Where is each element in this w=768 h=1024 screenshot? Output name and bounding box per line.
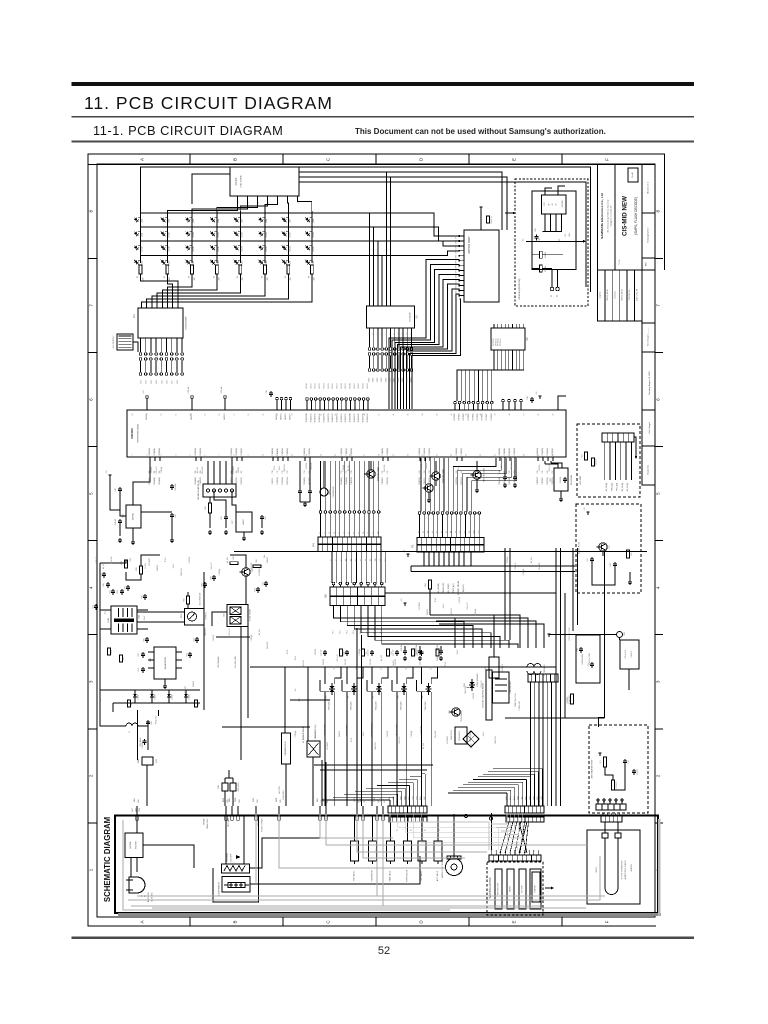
svg-text:P23(RXD): P23(RXD) <box>287 477 289 485</box>
svg-text:5: 5 <box>656 492 661 495</box>
svg-text:LED1: LED1 <box>142 219 144 223</box>
junction circle motor feed <box>490 817 493 820</box>
connector P1 header <box>418 512 421 515</box>
MICOM top pin riser bus-2 <box>310 401 312 411</box>
svg-text:56: 56 <box>248 414 250 416</box>
svg-text:0.1uF: 0.1uF <box>363 732 365 736</box>
capacitor C42 <box>171 513 173 515</box>
wire CN-P1 right to option area 1 <box>299 172 502 230</box>
svg-text:2: 2 <box>248 203 250 204</box>
heater assembly box <box>587 830 640 904</box>
svg-text:ASSY-HEATER TEMP: ASSY-HEATER TEMP <box>591 759 594 779</box>
noise filter box <box>125 833 143 858</box>
svg-text:3: 3 <box>161 454 163 455</box>
svg-text:P14: P14 <box>304 470 306 473</box>
triac bottom bus b <box>320 769 427 771</box>
IC IC7 regulator <box>236 512 252 532</box>
svg-text:T1A/BLK/BLK: T1A/BLK/BLK <box>206 818 209 829</box>
wire relay drops <box>321 760 323 806</box>
K5 top pin 7 <box>515 324 517 328</box>
terminal comb group B row2 <box>506 817 544 822</box>
svg-text:R1: R1 <box>137 276 139 278</box>
svg-text:TP-05: TP-05 <box>105 610 107 615</box>
reset wires <box>120 493 126 516</box>
approval table <box>598 270 643 321</box>
svg-text:BL: BL <box>439 829 441 831</box>
wire P4 pin 6 to K6 <box>356 552 358 584</box>
svg-text:KRC102M: KRC102M <box>421 462 423 470</box>
svg-text:R00: R00 <box>326 696 328 699</box>
varistor ZN06 <box>142 757 153 765</box>
svg-text:GRID11: GRID11 <box>411 377 413 382</box>
svg-text:P30: P30 <box>499 470 501 473</box>
svg-text:F: F <box>605 158 610 161</box>
svg-text:PWM_A(C): PWM_A(C) <box>452 583 455 593</box>
svg-text:C36: C36 <box>265 516 267 519</box>
svg-text:47: 47 <box>379 414 381 416</box>
K5 top pin 1 <box>493 324 495 328</box>
resistor R8 330 LED column 8 <box>310 265 313 274</box>
svg-text:3: 3 <box>258 203 260 204</box>
wire K6 down 6 <box>368 606 500 649</box>
wire triac loop 1 <box>324 667 326 684</box>
svg-text:R45 4.7K: R45 4.7K <box>549 464 551 472</box>
IC1 bottom pin 5 wire <box>160 338 162 352</box>
wire lf02 leads <box>520 666 527 668</box>
wire triac 4 down <box>396 692 398 806</box>
SW regulator pin 1 <box>206 489 209 492</box>
svg-text:+5V: +5V <box>584 507 586 511</box>
svg-text:C71: C71 <box>588 663 590 666</box>
svg-text:P02(AN2): P02(AN2) <box>508 477 511 485</box>
wire triac loop 5 <box>421 667 423 684</box>
svg-text:R32: R32 <box>123 657 125 660</box>
frame row tick 2 <box>88 352 97 354</box>
capacitor CM2 <box>144 739 146 741</box>
wire reset down <box>132 528 134 540</box>
wire comb A 9 <box>420 777 422 806</box>
wire comb A 8 <box>416 780 418 806</box>
svg-text:2000W: 2000W <box>596 867 598 873</box>
resistor R3 330 LED column 3 <box>191 265 194 274</box>
svg-text:LED21: LED21 <box>242 246 244 251</box>
wire P1 down 6 <box>448 552 450 566</box>
inductor L1 <box>126 723 138 726</box>
MICOM top pin riser right-1 <box>502 402 504 410</box>
svg-text:P35(AN5): P35(AN5) <box>541 448 544 456</box>
svg-text:REV:: REV: <box>646 261 648 266</box>
svg-text:C56: C56 <box>124 586 126 589</box>
MICOM top pin riser k5-4 <box>468 404 470 410</box>
OPTION PART pin 8 <box>460 270 465 272</box>
wire top rail drop to K3 b <box>299 177 391 306</box>
washing motor connector <box>489 855 541 861</box>
component PUMP MOTOR <box>404 841 412 861</box>
svg-text:R70: R70 <box>334 666 336 669</box>
wire P4 pin 11 to micom <box>368 461 370 511</box>
svg-text:PWM(A): PWM(A) <box>410 730 413 737</box>
svg-text:LED9: LED9 <box>142 233 144 237</box>
svg-text:SEG18: SEG18 <box>341 383 343 388</box>
wire triac 5 down <box>421 692 423 806</box>
svg-text:KID65004AP: KID65004AP <box>409 311 412 322</box>
svg-text:A0_SIG: A0_SIG <box>226 556 229 563</box>
resistor R7 330 LED column 7 <box>287 265 290 274</box>
MICOM bottom pin 15 <box>341 457 343 461</box>
svg-text:Drawing Number: Drawing Number <box>648 227 650 242</box>
svg-text:D2: D2 <box>557 295 559 297</box>
svg-text:R22: R22 <box>535 228 537 231</box>
svg-text:R03: R03 <box>398 696 400 699</box>
wire drop pair a <box>356 628 358 806</box>
svg-text:+C12 1uF: +C12 1uF <box>321 650 323 657</box>
wire P4 pin 2 to micom <box>324 461 326 511</box>
frame column tick 1 <box>189 154 191 164</box>
svg-text:P21(AN1): P21(AN1) <box>381 448 384 456</box>
LED D2 <box>159 215 168 224</box>
svg-text:S5: S5 <box>351 559 353 561</box>
thermal cutoff box <box>222 864 250 873</box>
svg-text:12V: 12V <box>295 688 297 692</box>
wire LED row 3 to K3 <box>377 241 379 306</box>
wire P4 pin 1 to micom <box>320 461 322 511</box>
capacitor C22 under K6 <box>440 649 442 651</box>
CN-P1 pin 3 <box>257 196 259 201</box>
svg-text:55: 55 <box>263 414 265 416</box>
wire OPTION PART +5V stub <box>480 210 482 230</box>
svg-text:A0_SIG: A0_SIG <box>380 654 383 661</box>
svg-text:R2: R2 <box>423 531 425 533</box>
svg-text:C23 104: C23 104 <box>459 597 461 603</box>
svg-text:E: E <box>512 920 517 923</box>
wire P1 down 8 <box>458 552 460 566</box>
svg-text:PWM(A): PWM(A) <box>218 568 221 575</box>
wire P1 riser 5 <box>438 458 440 512</box>
svg-text:DIG2: DIG2 <box>146 380 148 384</box>
wire bus horizontals <box>385 592 556 594</box>
svg-text:R39: R39 <box>210 576 212 579</box>
svg-text:R45 4.7K: R45 4.7K <box>467 602 469 610</box>
svg-text:TP-05: TP-05 <box>351 738 353 743</box>
svg-text:P20/SCL: P20/SCL <box>424 478 426 485</box>
wire triac 1 right branch down <box>334 692 336 806</box>
wire K6 down 2 <box>340 606 464 649</box>
svg-text:0.1uF: 0.1uF <box>443 604 445 608</box>
wire K6 down 7 <box>375 606 509 649</box>
svg-text:C42: C42 <box>175 514 177 517</box>
title block divider <box>614 165 616 271</box>
svg-text:SEG10: SEG10 <box>306 383 308 388</box>
MICOM bottom pin 13 <box>304 457 306 461</box>
wire t1 to pc4 <box>137 611 185 613</box>
svg-text:P1: P1 <box>411 544 415 548</box>
svg-text:C60: C60 <box>151 721 153 724</box>
svg-text:P03(AN3): P03(AN3) <box>345 477 348 485</box>
wire micom to SW regulator 3 <box>219 461 221 484</box>
IC1 top pin 5 <box>161 305 163 309</box>
svg-text:S-TYPE THERMISTOR: S-TYPE THERMISTOR <box>622 860 624 880</box>
svg-text:Drawn by: Drawn by <box>613 291 616 298</box>
wire P1 riser 2 <box>425 458 427 512</box>
triac TRC5 <box>423 683 431 695</box>
wire rail risers <box>284 667 286 733</box>
IC1 top pin 8 <box>177 305 179 309</box>
svg-text:PWM(A): PWM(A) <box>160 466 163 473</box>
svg-text:LED10: LED10 <box>169 232 171 237</box>
svg-text:25LA+BULK: 25LA+BULK <box>282 789 285 799</box>
svg-text:P73/INT3: P73/INT3 <box>468 413 470 420</box>
svg-text:THERMISTOR: THERMISTOR <box>372 869 374 882</box>
svg-text:T8: T8 <box>353 532 355 534</box>
svg-text:PROTECTOR: PROTECTOR <box>498 882 500 894</box>
svg-text:SEG12/P44: SEG12/P44 <box>306 413 308 422</box>
svg-text:GRID4: GRID4 <box>381 378 383 383</box>
svg-text:A0_SIG: A0_SIG <box>422 742 425 749</box>
wire bus x573 <box>572 548 574 631</box>
svg-text:(2M01): (2M01) <box>442 848 444 853</box>
svg-text:330: 330 <box>267 278 269 281</box>
stator inner box <box>532 872 540 902</box>
MICOM bottom pin 2 <box>154 457 156 461</box>
title block right column divider <box>642 257 655 259</box>
svg-text:FWM_A(V): FWM_A(V) <box>610 482 613 491</box>
svg-text:A: A <box>140 158 145 161</box>
wire LED row 4 to K3 <box>381 255 383 306</box>
gray routing wire 4 <box>363 814 465 858</box>
gray wire drops comb B <box>491 813 507 824</box>
svg-text:SEG20: SEG20 <box>350 383 352 388</box>
K6 top pin 7 <box>374 582 377 585</box>
svg-text:27: 27 <box>509 454 511 456</box>
svg-text:SEG15/P47: SEG15/P47 <box>319 413 321 422</box>
svg-text:L4-E09CV: L4-E09CV <box>502 663 504 672</box>
svg-text:LED5: LED5 <box>242 219 244 223</box>
title block right column divider <box>642 269 655 271</box>
svg-text:0.1uF: 0.1uF <box>144 616 146 620</box>
svg-text:Saturday, August 12, 2000: Saturday, August 12, 2000 <box>648 370 651 394</box>
svg-text:PWM(A): PWM(A) <box>95 556 98 563</box>
svg-text:10: 10 <box>263 454 265 456</box>
gray routing wire 12 <box>255 814 257 884</box>
wire comb B 7 <box>529 777 531 806</box>
svg-text:KRC102M: KRC102M <box>259 568 261 576</box>
svg-text:(ZNR): (ZNR) <box>156 758 158 763</box>
svg-text:SEG24: SEG24 <box>367 383 369 388</box>
svg-text:Rev A0: Rev A0 <box>631 172 634 178</box>
drawing frame inner border <box>97 164 655 917</box>
svg-text:SEG18/P52: SEG18/P52 <box>332 413 334 422</box>
svg-text:Kyungki-Do, Korea 442-742: Kyungki-Do, Korea 442-742 <box>610 206 613 227</box>
svg-text:DIG1: DIG1 <box>141 380 143 384</box>
svg-text:GRID1: GRID1 <box>369 378 371 383</box>
svg-text:K6-2: K6-2 <box>339 630 341 633</box>
K3 bottom pin 4 wire <box>381 328 383 347</box>
dashed box ACL-RBT <box>577 424 640 497</box>
MICOM top pin riser bus-14 <box>363 401 365 411</box>
relay RY2 motor control <box>486 670 492 720</box>
svg-text:LED2: LED2 <box>169 219 171 223</box>
resistor R54 4.7k near option part <box>487 216 490 223</box>
wire LED column 1 vertical <box>140 211 142 263</box>
K3 bottom pin 9 wire <box>402 328 404 347</box>
svg-text:R52: R52 <box>582 454 584 457</box>
svg-text:TACHO: TACHO <box>509 885 512 892</box>
wire comb A 2 <box>393 797 395 806</box>
svg-text:BL: BL <box>411 829 413 831</box>
wire power bus 1 <box>555 548 557 806</box>
svg-text:7: 7 <box>656 304 661 307</box>
wire sw reg link <box>214 491 226 516</box>
svg-text:330: 330 <box>314 278 316 281</box>
svg-text:A0_SIG(BL): A0_SIG(BL) <box>437 583 440 594</box>
wire noise filter to plug <box>130 858 132 878</box>
connector P4 header <box>319 511 322 514</box>
svg-text:T13: T13 <box>378 532 380 535</box>
MICOM top pin riser right-3 <box>514 402 516 410</box>
svg-text:SEG22: SEG22 <box>358 383 360 388</box>
MICOM top pin riser bus-7 <box>332 401 334 411</box>
svg-text:+15V: +15V <box>130 557 132 562</box>
svg-text:SEG16: SEG16 <box>332 383 334 388</box>
svg-text:S11: S11 <box>380 559 382 562</box>
svg-text:P02(AN2): P02(AN2) <box>158 448 161 456</box>
wire top rail from LED column 1 to memory area <box>141 167 591 292</box>
wire P4 pin 6 to micom <box>344 461 346 511</box>
svg-text:1N4148: 1N4148 <box>267 557 269 563</box>
MICOM top pin riser bus-12 <box>354 401 356 411</box>
svg-text:D: D <box>419 920 424 924</box>
wire comb B 5 <box>522 782 524 806</box>
LED D15 <box>281 229 290 238</box>
IC IC5 L4-E09CV <box>489 657 499 678</box>
svg-text:A0_SIG: A0_SIG <box>302 736 305 743</box>
MICOM bottom pin 27 <box>509 457 511 461</box>
frame row tick 4 <box>88 540 97 542</box>
svg-text:PWM(A): PWM(A) <box>522 568 525 575</box>
memory mid horizontal <box>526 240 583 242</box>
memory IC bottom pins <box>544 214 546 232</box>
CN-P1 pin 6 <box>287 196 289 201</box>
svg-text:LTV817C: LTV817C <box>206 612 208 620</box>
transistor TR1 <box>242 568 250 576</box>
svg-text:10uF/16V: 10uF/16V <box>393 659 395 667</box>
resistor R23 triac top <box>412 649 415 656</box>
triac TRC1 <box>327 683 335 695</box>
MICOM top pin riser P1 <box>191 399 193 411</box>
component THERMISTOR <box>369 841 377 861</box>
svg-text:IC7: IC7 <box>232 520 234 524</box>
svg-text:BL: BL <box>397 829 399 831</box>
connector CN-P1 LED display block <box>230 167 299 196</box>
svg-text:SCHEMATIC DIAGRAM: SCHEMATIC DIAGRAM <box>103 817 112 902</box>
wire P1 down 1 <box>423 552 425 566</box>
MICOM top pin riser bus-10 <box>345 401 347 411</box>
IC1 top pin 1 <box>141 305 143 309</box>
svg-text:A1_SIG(R): A1_SIG(R) <box>447 583 450 593</box>
svg-text:PWM(A): PWM(A) <box>250 634 253 641</box>
wire rt1 to bleeder <box>619 638 621 641</box>
transistor TR7 in sub power <box>599 543 607 551</box>
photocoupler PC4 <box>185 609 205 626</box>
LED D19 <box>184 243 193 252</box>
resistor R61 <box>627 550 630 558</box>
svg-text:C58: C58 <box>262 582 264 585</box>
svg-text:GRID6: GRID6 <box>390 378 392 383</box>
svg-text:C48: C48 <box>610 563 612 566</box>
LED D23 <box>281 243 290 252</box>
MICOM bottom pin 31 <box>547 457 549 461</box>
svg-text:24: 24 <box>466 454 468 456</box>
svg-text:S6: S6 <box>356 559 358 561</box>
MICOM bottom pin 8 <box>241 457 243 461</box>
LED D16 <box>304 229 313 238</box>
relay CAMERA VOLM <box>282 733 291 764</box>
svg-text:P71/INT1: P71/INT1 <box>459 413 461 420</box>
capacitor C14 triac snubber <box>371 650 373 652</box>
MICOM bottom pin 6 <box>231 457 233 461</box>
svg-text:A0_SIG: A0_SIG <box>196 466 199 473</box>
gray routing wire 1 <box>320 814 393 838</box>
wire door switch U <box>213 868 259 902</box>
wire OPTION PART bus 3 to micom <box>395 269 460 409</box>
svg-text:21: 21 <box>422 454 424 456</box>
K3 bottom pin 6 wire <box>390 328 392 347</box>
filter LF02 <box>527 664 541 667</box>
terminal pad 6 <box>278 816 281 820</box>
svg-text:R4: R4 <box>432 531 434 533</box>
svg-text:C53: C53 <box>138 668 140 671</box>
wire P4 pin 10 to micom <box>363 461 365 511</box>
svg-text:SEG22/P56: SEG22/P56 <box>350 413 352 422</box>
svg-text:A0_SIG: A0_SIG <box>258 628 261 635</box>
svg-text:5: 5 <box>190 454 192 455</box>
MICOM bottom pin 1 <box>149 457 151 461</box>
svg-text:GND/VSS: GND/VSS <box>303 659 305 667</box>
wire comb A 4 <box>401 791 403 806</box>
gray routing wire 7 <box>137 895 377 897</box>
svg-text:P27: P27 <box>461 470 463 473</box>
smps extra caps <box>103 572 105 574</box>
svg-text:10uF/16V: 10uF/16V <box>384 463 386 471</box>
svg-text:WS-M2_A1.6M: WS-M2_A1.6M <box>606 289 609 301</box>
svg-text:ZN05 (ZNR): ZN05 (ZNR) <box>238 782 240 791</box>
wire reset left <box>110 490 120 510</box>
connector K5 <box>491 328 525 350</box>
svg-text:R49: R49 <box>233 556 235 559</box>
MICOM top pin riser bus-8 <box>336 401 338 411</box>
svg-text:1N4148: 1N4148 <box>426 463 428 469</box>
K3 bottom pin 11 wire <box>411 328 413 347</box>
svg-text:SEG21/P55: SEG21/P55 <box>345 413 347 422</box>
svg-text:R5: R5 <box>237 276 239 278</box>
svg-text:OPT5: OPT5 <box>456 260 458 264</box>
transistor TR8 KRC102M <box>425 484 433 492</box>
wires comb B2 to motor comb <box>500 822 509 853</box>
resistor R52 <box>585 452 588 460</box>
svg-text:SEG14: SEG14 <box>323 383 325 388</box>
varistor ZN04 <box>222 783 228 791</box>
LED D26 <box>159 257 168 266</box>
svg-text:A0: A0 <box>548 203 551 205</box>
svg-text:TP-05: TP-05 <box>435 598 437 603</box>
OPTION PART pin 1 <box>460 235 465 237</box>
svg-text:K5: K5 <box>526 337 529 341</box>
transistor TR4 KRC102M <box>367 470 375 478</box>
svg-text:GND/VSS: GND/VSS <box>205 627 207 635</box>
K6 top pin 3 <box>346 582 349 585</box>
svg-text:SEG15: SEG15 <box>328 383 330 388</box>
svg-text:AC220/240V: AC220/240V <box>147 891 150 902</box>
